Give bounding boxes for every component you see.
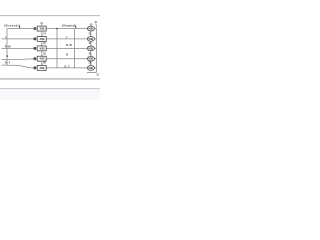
svg-text:B: B — [66, 53, 68, 57]
svg-text:KSB: KSB — [89, 37, 94, 41]
svg-text:KSB: KSB — [40, 66, 45, 70]
svg-text:KSB: KSB — [89, 46, 94, 50]
svg-text:KSB: KSB — [89, 27, 94, 31]
svg-text:G-Y: G-Y — [5, 61, 11, 65]
svg-text:KSB: KSB — [40, 57, 45, 61]
svg-text:KSB: KSB — [40, 27, 45, 31]
svg-text:R-W: R-W — [5, 45, 11, 49]
svg-text:(Shaded): (Shaded) — [4, 24, 19, 28]
svg-text:KSB: KSB — [40, 46, 45, 50]
svg-text:KSB: KSB — [40, 37, 45, 41]
svg-text:G-Y: G-Y — [64, 64, 70, 68]
svg-text:KSB: KSB — [89, 66, 94, 70]
svg-text:R-W: R-W — [66, 43, 72, 47]
svg-text:(Shaded): (Shaded) — [62, 24, 75, 28]
svg-text:B: B — [6, 54, 8, 58]
svg-text:KSB: KSB — [89, 57, 94, 61]
